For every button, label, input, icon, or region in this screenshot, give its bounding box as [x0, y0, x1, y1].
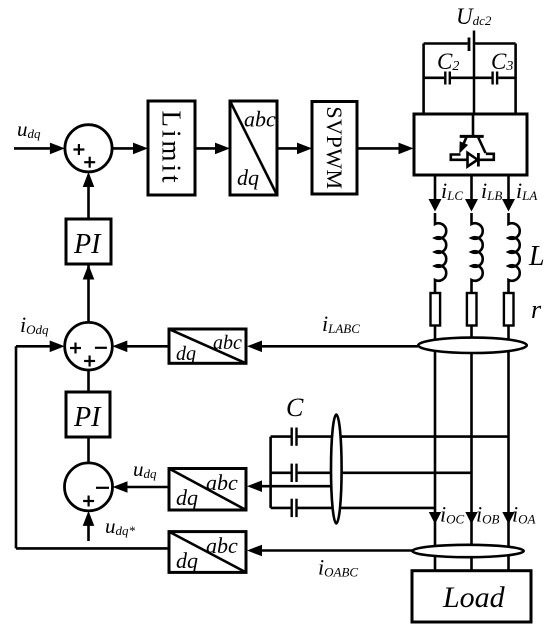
svg-text:Load: Load — [442, 581, 506, 614]
svg-text:abc: abc — [206, 470, 238, 495]
svg-text:abc: abc — [206, 533, 238, 558]
svg-text:PI: PI — [73, 402, 102, 433]
svg-text:PI: PI — [73, 229, 102, 260]
svg-text:dq: dq — [237, 165, 259, 190]
svg-text:dq: dq — [176, 343, 196, 365]
svg-text:r: r — [531, 295, 542, 324]
svg-text:abc: abc — [213, 332, 242, 354]
svg-text:L: L — [528, 241, 545, 272]
svg-text:Limit: Limit — [157, 111, 187, 186]
svg-text:abc: abc — [244, 107, 276, 132]
svg-text:C: C — [286, 393, 304, 422]
svg-text:dq: dq — [176, 485, 198, 510]
svg-text:SVPWM: SVPWM — [322, 106, 347, 189]
svg-text:dq: dq — [176, 548, 198, 573]
